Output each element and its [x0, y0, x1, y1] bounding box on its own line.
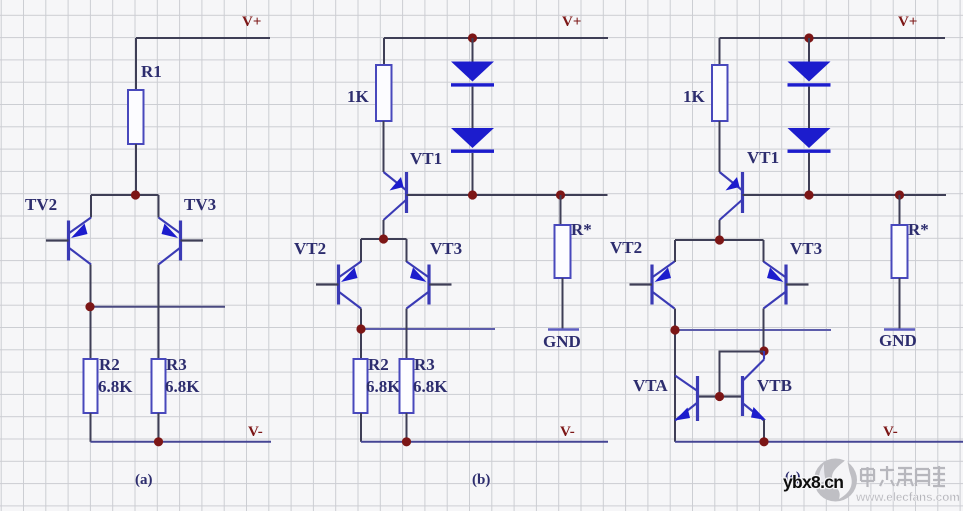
wire base line down to R* (c) [899, 195, 901, 225]
resistor R2 [84, 359, 98, 413]
junction dot pair rail (b) [379, 234, 388, 243]
junction dot V- rail (a) [154, 437, 163, 446]
wire base line VTA-VTB (c) [698, 395, 743, 397]
wire between diodes (b) [472, 87, 474, 128]
diode D1 (c) [788, 62, 831, 87]
diode D2 (c) [788, 128, 831, 153]
wire right corner drop (a) [158, 195, 160, 218]
wire VT1 base line (c) [743, 194, 947, 196]
wire VT1 collector down to pair (c) [719, 220, 721, 240]
svg-text:VTB: VTB [757, 376, 792, 395]
svg-text:R3: R3 [414, 355, 435, 374]
watermark Chinese glyphs (stylised) [861, 466, 946, 488]
junction dot diodes/base line (b) [468, 190, 477, 199]
junction dot VT3 collector / VTB collector (c) [759, 346, 768, 355]
svg-text:V+: V+ [562, 14, 581, 30]
svg-text:V+: V+ [898, 14, 917, 30]
junction dot R* branch (c) [895, 190, 904, 199]
wire V- rail (c) [675, 441, 963, 443]
wire VT1 collector down to pair (b) [383, 220, 385, 239]
transistor TV3 [159, 218, 204, 265]
svg-text:GND: GND [543, 332, 581, 351]
resistor R* (c) [892, 225, 908, 278]
wire output line (b) [361, 328, 495, 330]
svg-text:R3: R3 [166, 355, 187, 374]
diode D2 (b) [451, 128, 494, 153]
junction dot V- rail (c) [759, 437, 768, 446]
svg-text:V-: V- [883, 424, 898, 440]
wire VT2 collector down left rail (c) [674, 309, 676, 442]
transistor VT2 (b) [316, 262, 361, 309]
wire output line (a) [90, 306, 225, 308]
junction dot collector line (a) [85, 302, 94, 311]
junction dot diodes/base line (c) [804, 190, 813, 199]
svg-text:GND: GND [879, 331, 917, 350]
wire between diodes (c) [808, 87, 810, 128]
wire V+ rail down to 1K (b) [383, 38, 385, 65]
transistor VTA [675, 376, 698, 422]
wire emitter rail of pair (c) [675, 239, 764, 241]
svg-text:V-: V- [560, 424, 575, 440]
wire emitter rail of pair (a) [91, 194, 159, 196]
junction dot R* branch (b) [556, 190, 565, 199]
svg-text:1K: 1K [347, 87, 370, 106]
svg-text:6.8K: 6.8K [98, 377, 133, 396]
svg-text:V+: V+ [242, 14, 261, 30]
ground symbol (c) [879, 330, 917, 351]
svg-text:VTA: VTA [633, 376, 668, 395]
svg-text:VT3: VT3 [430, 239, 462, 258]
svg-text:(b): (b) [472, 472, 490, 488]
svg-text:6.8K: 6.8K [413, 377, 448, 396]
wire VT2 collector down to R2 (b) [360, 309, 362, 360]
svg-text:R1: R1 [141, 62, 162, 81]
wire 1K bottom to VT1 emitter (b) [383, 121, 385, 172]
wire R2 bottom to V- rail [90, 413, 92, 442]
wire D2 to base line (c) [808, 153, 810, 195]
wire D2 to base line (b) [472, 153, 474, 195]
svg-text:6.8K: 6.8K [366, 377, 401, 396]
resistor R1 [128, 90, 144, 144]
wire V+ rail down to 1K (c) [719, 38, 721, 65]
resistor R2 (b) [354, 359, 368, 413]
svg-text:VT3: VT3 [790, 239, 822, 258]
svg-text:VT1: VT1 [747, 148, 779, 167]
junction dot base line (c) [715, 392, 724, 401]
svg-text:VT1: VT1 [410, 149, 442, 168]
resistor 1K (b) [376, 65, 392, 121]
wire VTB emitter down to V- rail (c) [763, 420, 765, 442]
resistor 1K (c) [712, 65, 728, 121]
transistor VTB [743, 351, 767, 421]
resistor R3 (b) [400, 359, 414, 413]
svg-text:R*: R* [908, 220, 929, 239]
svg-text:ybx8.cn: ybx8.cn [783, 472, 843, 492]
wire TV2 collector down to R2 [90, 265, 92, 360]
wire VT1 base line (b) [407, 194, 608, 196]
transistor VT1 (c) [720, 172, 743, 220]
resistor R3 [152, 359, 166, 413]
wire VT3 collector down to VTB node (c) [763, 309, 765, 352]
transistor TV2 [46, 218, 91, 265]
junction dot output line (b) [356, 324, 365, 333]
wire from V+ rail down to R1 [135, 38, 137, 90]
junction dot output line (c) [670, 325, 679, 334]
wire left corner drop (c) [674, 240, 676, 262]
wire R* to GND (b) [562, 278, 564, 329]
diode D1 (b) [451, 62, 494, 87]
svg-text:R*: R* [571, 220, 592, 239]
svg-text:TV3: TV3 [184, 195, 216, 214]
svg-text:VT2: VT2 [294, 239, 326, 258]
transistor VT1 (b) [384, 172, 407, 220]
wire right corner drop (c) [763, 240, 765, 262]
node junction dot R1/pair (a) [131, 190, 140, 199]
ground symbol (b) [543, 330, 581, 352]
svg-text:VT2: VT2 [610, 238, 642, 257]
svg-text:R2: R2 [368, 355, 389, 374]
wire R3 bottom to V- rail (b) [406, 413, 408, 442]
svg-text:TV2: TV2 [25, 195, 57, 214]
wire R1 bottom to node [135, 144, 137, 195]
wire R* to GND (c) [899, 278, 901, 329]
wire R3 bottom to V- rail [158, 413, 160, 442]
wire R2 bottom to V- rail (b) [360, 413, 362, 442]
wire V+ rail to diode D1 (b) [472, 38, 474, 62]
svg-text:1K: 1K [683, 87, 706, 106]
wire V+ rail (c) [720, 37, 946, 39]
svg-text:R2: R2 [99, 355, 120, 374]
transistor VT2 (c) [630, 262, 675, 309]
wire base line down to R* (b) [560, 195, 562, 225]
resistor R* (b) [555, 225, 571, 278]
wire V+ rail (b) [384, 37, 608, 39]
wire V- rail (a) [91, 441, 272, 443]
wire TV3 collector down to R3 [158, 265, 160, 360]
junction dot V+ rail / diodes (c) [804, 33, 813, 42]
junction dot V- rail (b) [402, 437, 411, 446]
junction dot pair rail (c) [715, 235, 724, 244]
junction dot V+ rail / diodes (b) [468, 33, 477, 42]
wire V- rail (b) [361, 441, 608, 443]
svg-text:www.elecfans.com: www.elecfans.com [855, 490, 960, 504]
wire VT3 collector down to R3 (b) [406, 309, 408, 360]
wire left corner drop (b) [360, 239, 362, 262]
wire 1K bottom to VT1 emitter (c) [719, 121, 721, 172]
wire V+ rail to diode D1 (c) [808, 38, 810, 62]
wire V+ rail (a) [136, 37, 270, 39]
wire L link to VTA/VTB bases (c) [720, 352, 765, 397]
transistor VT3 (b) [407, 262, 452, 309]
transistor VT3 (c) [764, 262, 809, 309]
wire emitter rail of pair (b) [361, 238, 407, 240]
svg-text:6.8K: 6.8K [165, 377, 200, 396]
wire output line (c) [675, 329, 831, 331]
elecfans logo disc [814, 459, 857, 502]
wire right corner drop (b) [406, 239, 408, 262]
svg-text:V-: V- [248, 424, 263, 440]
wire left corner drop (a) [90, 195, 92, 218]
svg-text:(a): (a) [135, 472, 153, 488]
